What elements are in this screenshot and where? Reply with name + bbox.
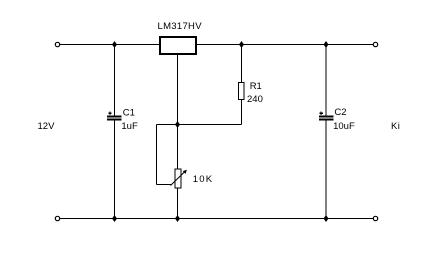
svg-text:1uF: 1uF xyxy=(121,121,138,132)
junction top C1 node xyxy=(112,41,117,48)
wire R1 top pin xyxy=(241,45,243,84)
potentiometer arrowhead xyxy=(183,170,187,174)
junction adj node xyxy=(175,121,180,128)
op-amp/regulator U1 LM317HV box xyxy=(160,37,196,54)
wire top rail left segment xyxy=(60,44,159,46)
wire adj node horizontal xyxy=(157,124,242,126)
junction top C2 node xyxy=(324,41,329,48)
wire LM317 ADJ pin down to potentiometer xyxy=(177,55,179,169)
junction bottom C1 node xyxy=(112,215,117,222)
junction top R1 node xyxy=(239,41,244,48)
wire R1 bottom pin xyxy=(241,100,243,125)
svg-text:10K: 10K xyxy=(193,174,214,185)
capacitor C1 plus sign xyxy=(108,112,111,115)
junction bottom pot node xyxy=(175,215,180,222)
wire wiper loop vertical xyxy=(156,125,158,185)
wire potentiometer bottom to rail xyxy=(177,188,179,219)
svg-text:C1: C1 xyxy=(123,107,135,118)
wire C2 branch upper xyxy=(325,45,327,117)
wire wiper loop horizontal xyxy=(157,184,172,186)
svg-text:240: 240 xyxy=(247,94,263,105)
svg-text:C2: C2 xyxy=(334,107,346,118)
svg-text:Ki: Ki xyxy=(391,121,400,132)
svg-text:R1: R1 xyxy=(250,81,262,92)
wire C2 branch lower xyxy=(325,121,327,219)
wire C1 branch lower xyxy=(114,121,116,219)
capacitor C2 plus sign xyxy=(319,112,322,115)
wire top rail right segment xyxy=(197,44,373,46)
junction bottom C2 node xyxy=(324,215,329,222)
wire C1 branch upper xyxy=(114,45,116,117)
potentiometer wiper arrow xyxy=(171,171,187,186)
terminal top-right xyxy=(373,42,377,46)
potentiometer P1 body xyxy=(175,169,181,188)
capacitor C1 plates xyxy=(107,117,122,120)
svg-text:LM317HV: LM317HV xyxy=(158,21,203,32)
svg-text:12V: 12V xyxy=(38,121,56,132)
terminal bottom-right xyxy=(373,216,377,220)
wire bottom rail xyxy=(60,218,373,220)
capacitor C2 plates xyxy=(319,117,334,120)
svg-text:10uF: 10uF xyxy=(333,121,355,132)
terminal top-left xyxy=(55,42,59,46)
resistor R1 body xyxy=(239,83,245,100)
terminal bottom-left xyxy=(55,216,59,220)
